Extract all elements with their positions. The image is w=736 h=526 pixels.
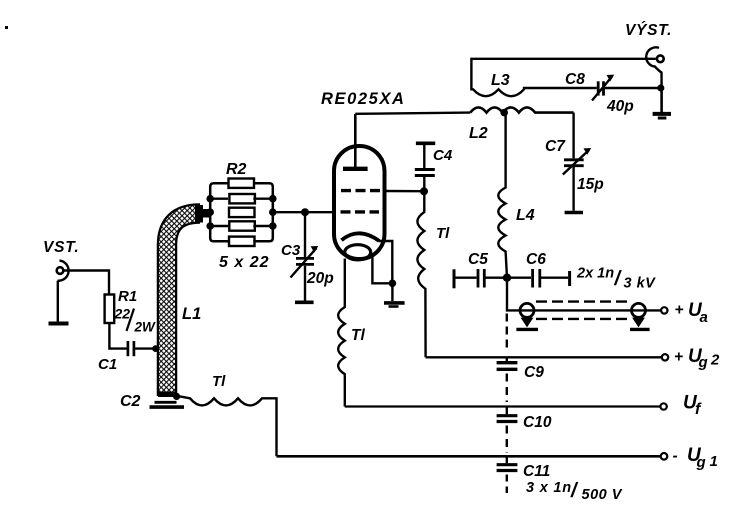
R2 rail nodes [206, 195, 214, 203]
wire (grid line to tube) [273, 211, 335, 213]
svg-text:g: g [696, 454, 706, 471]
ground (C7) [565, 211, 583, 214]
wire [135, 347, 156, 349]
svg-text:C8: C8 [565, 71, 585, 88]
inductor L2 (tank) [470, 107, 573, 112]
node (L1 bottom) [173, 393, 180, 400]
svg-text:C4: C4 [433, 147, 453, 164]
svg-text:/: / [570, 480, 579, 502]
wire (+Ug2 line) [426, 356, 662, 358]
resistor R2 element 1 [229, 179, 255, 188]
svg-text:C10: C10 [523, 414, 552, 431]
ground (C3) [295, 300, 314, 304]
insulator (standoff 2) [632, 303, 646, 317]
svg-text:VÝST.: VÝST. [625, 22, 672, 39]
capacitor C3 (variable) [304, 212, 306, 257]
svg-text:C9: C9 [524, 364, 544, 381]
svg-text:Tl: Tl [436, 225, 450, 242]
svg-text:C11: C11 [523, 463, 550, 480]
resistor bank R2 right rail [253, 183, 272, 241]
resistor R2 element 4 [229, 221, 255, 230]
wire cathode to ground node [379, 241, 392, 283]
wire filament right lead [372, 253, 392, 283]
node (output shield) [657, 84, 664, 91]
screened lead (dashed) [536, 300, 630, 302]
svg-text:15p: 15p [577, 176, 604, 193]
capacitor C4 [423, 177, 425, 192]
svg-text:/: / [614, 268, 623, 290]
svg-text:2x 1n: 2x 1n [576, 266, 614, 282]
node (L2 tap) [500, 109, 508, 117]
svg-text:C3: C3 [281, 242, 301, 259]
svg-text:500 V: 500 V [582, 487, 623, 503]
resistor R2 element 2 [229, 194, 255, 203]
wire (+Ua line) [507, 278, 662, 311]
svg-text:C6: C6 [526, 251, 546, 268]
node (C1 to L1 shield) [152, 345, 159, 352]
grid g2 (dashed) [341, 189, 380, 192]
ground (input) [49, 322, 69, 326]
wire (anode to tank) [355, 113, 470, 114]
resistor bank R2 left rail [210, 183, 228, 241]
ground (output) [660, 88, 663, 112]
svg-text:2W: 2W [134, 320, 157, 335]
tube U1 envelope [334, 146, 385, 259]
capacitor C5 [453, 269, 456, 288]
svg-text:+: + [674, 349, 683, 366]
capacitor C1 [127, 341, 130, 356]
wire [57, 281, 59, 322]
insulator (standoff 1) [520, 303, 534, 317]
svg-text:L4: L4 [516, 207, 535, 224]
svg-text:+: + [675, 302, 684, 319]
wire (-Ug1 line) [277, 455, 661, 458]
capacitor C2 [155, 401, 177, 404]
node (cathode ground) [389, 280, 397, 288]
ground (cathode) [391, 283, 393, 301]
svg-text:22: 22 [114, 306, 131, 322]
svg-text:Tl: Tl [351, 327, 365, 344]
terminal -Ug1 [661, 453, 668, 460]
node (g2/C4) [420, 187, 428, 195]
connector J1 (input socket) [57, 267, 64, 274]
choke Tl (filament) [338, 259, 345, 407]
terminal +Ug2 [662, 354, 668, 360]
capacitor C11 (feedthrough) [506, 456, 508, 463]
wire (Uf line) [345, 405, 661, 407]
capacitor C8 (variable) [597, 81, 600, 95]
svg-text:g: g [698, 354, 708, 371]
svg-text:VST.: VST. [43, 239, 80, 256]
wire + inductor L3 (link) [471, 59, 655, 96]
svg-text:3 x 1n: 3 x 1n [526, 480, 572, 496]
capacitor C7 (variable) [572, 113, 574, 159]
svg-text:-: - [673, 448, 678, 465]
screen wall (dashed) [506, 314, 508, 349]
filament loop [345, 245, 371, 260]
svg-text:1: 1 [710, 453, 718, 470]
svg-text:C1: C1 [98, 356, 117, 373]
resistor R2 element 3 [229, 208, 255, 217]
terminal +Ua [661, 307, 667, 313]
capacitor C10 (feedthrough) [506, 407, 508, 415]
svg-text:L3: L3 [491, 72, 510, 89]
anode lead [354, 114, 357, 168]
terminal Uf [660, 403, 666, 409]
svg-text:3 kV: 3 kV [624, 276, 657, 292]
node (C3 tap) [301, 208, 309, 216]
filament arc (cathode) [342, 233, 380, 241]
R2 row leads [210, 197, 273, 199]
grid g1 (dashed) [341, 210, 380, 213]
capacitor C9 (feedthrough) [506, 357, 508, 361]
svg-text:20p: 20p [306, 270, 334, 287]
svg-text:a: a [700, 309, 708, 326]
choke Tl (screen feed) [417, 191, 425, 357]
wire [109, 323, 126, 349]
resistor R1 [105, 295, 115, 324]
inductor L1 (shielded coax strip) [167, 214, 200, 397]
choke Tl (grid feed) [180, 396, 277, 456]
svg-text:L2: L2 [469, 125, 488, 142]
svg-text:C7: C7 [545, 138, 566, 155]
node (anode feed) [503, 274, 511, 282]
capacitor C6 [509, 277, 531, 279]
inductor L4 [498, 114, 507, 278]
wire [64, 271, 109, 295]
svg-text:5 x 22: 5 x 22 [219, 254, 269, 271]
speck [5, 26, 8, 29]
anode bar [343, 167, 368, 171]
svg-text:RE025XA: RE025XA [321, 90, 406, 108]
svg-text:L1: L1 [182, 305, 201, 323]
svg-text:40p: 40p [606, 98, 634, 115]
svg-text:C5: C5 [468, 251, 488, 268]
svg-text:2: 2 [710, 352, 720, 369]
wire g2 out [385, 190, 421, 193]
svg-text:R1: R1 [118, 288, 137, 305]
svg-text:R2: R2 [226, 161, 247, 178]
svg-text:C2: C2 [120, 393, 141, 410]
svg-text:Tl: Tl [212, 373, 226, 390]
resistor R2 element 5 [229, 237, 255, 246]
svg-text:f: f [695, 401, 702, 418]
